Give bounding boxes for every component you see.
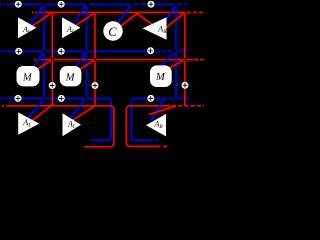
svg-text:M: M (22, 73, 33, 84)
svg-text:M: M (65, 73, 76, 84)
svg-text:M: M (155, 72, 166, 83)
svg-text:C: C (108, 25, 117, 39)
